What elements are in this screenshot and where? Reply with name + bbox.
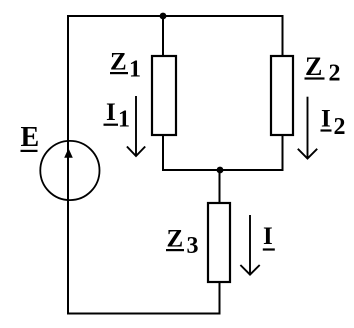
label Z2	[305, 52, 341, 87]
label I1	[104, 99, 131, 133]
svg-text:1: 1	[129, 57, 141, 83]
svg-text:Z: Z	[110, 49, 127, 76]
impedance Z1 body	[152, 56, 176, 135]
wire bottom horizontal	[67, 313, 221, 315]
wire middle horizontal (node B rail)	[162, 169, 284, 171]
svg-text:1: 1	[118, 107, 130, 133]
wire Z1 bottom to middle rail	[162, 134, 164, 171]
wire left vertical (E branch)	[67, 15, 69, 315]
svg-text:E: E	[21, 122, 40, 153]
svg-text:Z: Z	[167, 226, 184, 253]
wire top horizontal (node A rail)	[67, 15, 284, 17]
svg-text:I: I	[263, 223, 273, 250]
wire Z2 bottom to middle rail	[282, 134, 284, 171]
wire node B to Z3 top	[219, 170, 221, 204]
current arrow I1	[127, 96, 145, 156]
voltage source E1 circle	[40, 141, 99, 200]
impedance Z3 body	[208, 203, 230, 282]
label Z3	[166, 226, 199, 260]
wire Z3 bottom to bottom rail	[219, 281, 221, 315]
svg-text:Z: Z	[305, 52, 322, 81]
svg-text:3: 3	[187, 233, 199, 259]
wire junction A to Z1 top	[162, 16, 164, 57]
svg-text:I: I	[321, 106, 331, 133]
node B junction dot	[217, 167, 224, 174]
impedance Z2 body	[271, 56, 293, 135]
label E	[21, 122, 40, 153]
current arrow I	[240, 215, 259, 275]
label I	[263, 223, 275, 251]
label I2	[321, 106, 346, 141]
svg-text:2: 2	[329, 61, 341, 87]
label Z1	[110, 49, 141, 83]
wire top rail to Z2 top	[282, 15, 284, 57]
node A junction dot	[160, 13, 167, 20]
voltage source E1 arrowhead	[64, 148, 73, 158]
current arrow I2	[298, 97, 317, 159]
svg-text:I: I	[106, 99, 116, 126]
svg-text:2: 2	[334, 114, 346, 140]
